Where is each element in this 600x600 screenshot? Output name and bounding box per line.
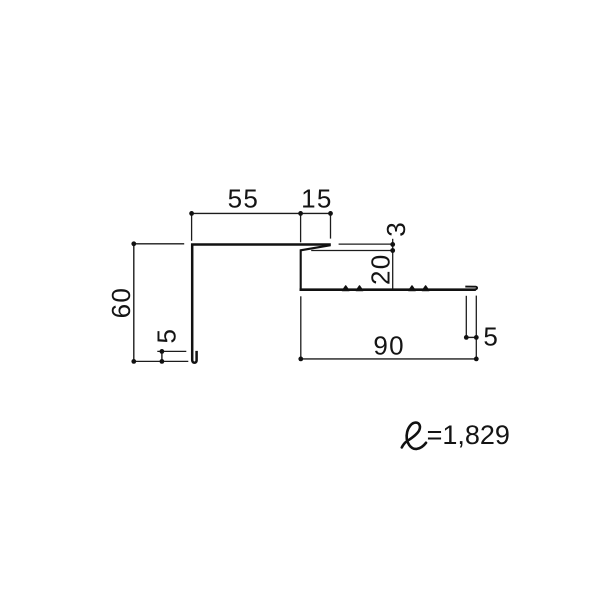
dimension 5 right extension line	[465, 296, 467, 338]
extension line 60 bottom	[134, 360, 189, 362]
dot 5 left top	[160, 349, 165, 354]
svg-text:90: 90	[373, 330, 405, 360]
script ell glyph	[402, 423, 426, 449]
dimension 5 right line	[466, 336, 476, 338]
extension line between 55 and 15	[300, 213, 302, 242]
dot 5 right left	[464, 335, 469, 340]
break mark 1 on bottom flange	[342, 286, 349, 291]
dimension 3 lower extension line	[311, 250, 393, 252]
extension line 60 top	[134, 243, 184, 245]
dot 5 left bottom	[160, 359, 165, 364]
extension line 5 left top	[157, 350, 186, 352]
dot 5 right right	[474, 335, 479, 340]
svg-text:3: 3	[381, 222, 411, 236]
dimension 55/15 line	[192, 212, 331, 214]
dot 55/15 middle	[298, 211, 303, 216]
profile top flange	[191, 243, 331, 246]
break mark 2 on bottom flange	[356, 286, 363, 291]
profile right end hem	[465, 287, 477, 290]
dimension 60 line	[133, 244, 135, 362]
dimension 3/20 vertical line	[392, 239, 394, 289]
extension line 90 right	[475, 296, 477, 359]
dot 90 right	[474, 357, 479, 362]
svg-text:20: 20	[365, 253, 395, 285]
dot 60 bottom	[131, 359, 136, 364]
dot 90 left	[298, 357, 303, 362]
svg-text:5: 5	[483, 321, 497, 351]
svg-text:5: 5	[151, 329, 181, 343]
profile left leg with bottom hem	[192, 244, 196, 363]
profile fold-back and web	[301, 245, 331, 288]
svg-text:60: 60	[106, 287, 136, 319]
extension line left of 55	[191, 213, 193, 240]
extension line right of 15	[330, 213, 332, 238]
break mark 3 on bottom flange	[409, 286, 416, 291]
svg-text:55: 55	[228, 184, 260, 214]
dimension 3 upper extension line	[339, 243, 393, 245]
dot 60 top	[131, 241, 136, 246]
svg-text:=1,829: =1,829	[427, 420, 510, 450]
dimension 5 left line	[161, 351, 163, 361]
break mark 4 on bottom flange	[422, 286, 429, 291]
dimension 90 line	[301, 358, 477, 360]
profile bottom flange	[300, 288, 476, 291]
svg-text:15: 15	[301, 184, 333, 214]
dot 3 bottom	[390, 248, 395, 253]
extension line 90 left	[300, 296, 302, 359]
dot 3 top	[390, 242, 395, 247]
dot 15 right	[328, 211, 333, 216]
dot 55 left	[189, 211, 194, 216]
